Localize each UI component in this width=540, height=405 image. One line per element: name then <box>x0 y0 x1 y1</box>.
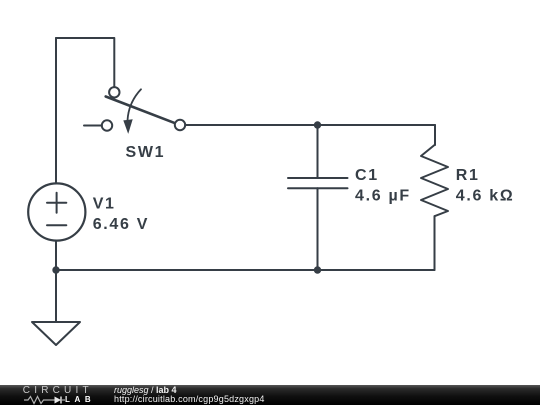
wire: SW1 left throw stub <box>84 125 102 127</box>
junction: bottom node at C1 branch <box>314 266 321 273</box>
wire: C1 top lead <box>317 125 319 178</box>
footer url text <box>114 394 265 404</box>
svg-text:4.6 kΩ: 4.6 kΩ <box>456 187 515 204</box>
wire: C1 bottom lead <box>317 188 319 270</box>
footer title text <box>114 385 177 395</box>
junction: node at V1 bottom <box>52 266 59 273</box>
wire: top-left horizontal segment <box>56 37 114 39</box>
junction: top node at C1 branch <box>314 121 321 128</box>
ground <box>32 322 80 345</box>
wire: left vertical from top rail down to V1 positive terminal <box>55 38 57 183</box>
wire: V1 bottom lead to ground junction <box>55 241 57 270</box>
svg-text:4.6 µF: 4.6 µF <box>355 187 411 204</box>
footer bar <box>0 385 540 405</box>
wire: SW1 top terminal lead <box>113 38 115 87</box>
wire: R1 top lead <box>434 125 436 145</box>
CircuitLab logo wordmark <box>23 385 93 396</box>
wire: R1 bottom lead <box>434 216 436 270</box>
wire: top rail from SW1 right terminal to R1 branch <box>185 124 435 126</box>
resistor R1 <box>421 145 448 216</box>
capacitor C1 <box>288 178 348 188</box>
wire: bottom rail <box>56 269 435 271</box>
svg-text:6.46 V: 6.46 V <box>93 216 149 233</box>
CircuitLab logo resistor-diode glyph <box>22 394 92 405</box>
svg-text:C1: C1 <box>355 167 379 184</box>
svg-text:V1: V1 <box>93 196 116 213</box>
wire: ground lead <box>55 270 57 322</box>
CircuitLab logo LAB text <box>65 395 95 404</box>
voltage source V1 <box>28 183 85 240</box>
svg-text:SW1: SW1 <box>126 144 166 161</box>
switch SW1 <box>102 87 185 134</box>
svg-text:R1: R1 <box>456 167 480 184</box>
